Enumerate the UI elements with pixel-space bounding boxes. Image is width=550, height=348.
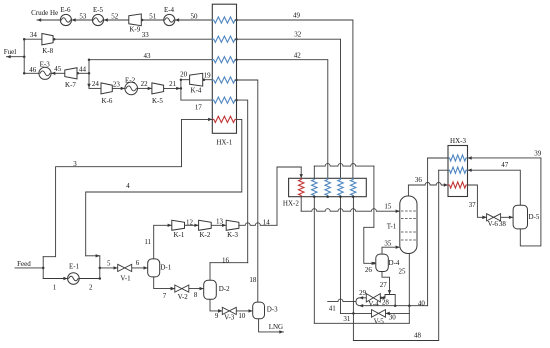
wire stream 32 [237,39,341,178]
svg-text:6: 6 [136,259,140,267]
wire stream 10 [236,310,252,312]
svg-text:K-4: K-4 [191,87,202,95]
wire stream 18 [237,80,258,302]
valve V-4 [366,294,373,302]
valve V-3 [222,307,229,314]
drum D-5 [513,205,527,229]
junction K-9 inlet [141,19,144,22]
svg-text:27: 27 [380,281,388,289]
wire 14 riser [277,167,301,225]
valve V-6 [487,214,494,221]
HX-3 cold pass 39 [448,155,468,161]
wire stream Crude He outlet [37,19,60,21]
svg-text:42: 42 [294,52,302,60]
cooler E-5 [92,14,103,25]
HX-1 feed pass (red) [212,116,236,122]
junction at 34 corner [23,38,26,41]
svg-text:V-1: V-1 [120,275,131,283]
junction 40-28 [394,304,397,307]
junction HX-1 r5 [235,99,238,102]
drum D-1 [148,259,160,277]
wire stream 3 [43,119,212,256]
compressor K-6 [101,83,112,94]
svg-text:24: 24 [92,80,100,88]
junction 19 [203,78,206,81]
wire stream 21 [164,87,181,89]
wire stream 48 [353,170,438,340]
wire stream 34 [24,38,42,40]
svg-text:7: 7 [163,292,167,300]
drum D-3 [253,302,265,319]
wire stream 33 [53,38,212,40]
arrow into D-3 [249,309,253,312]
svg-text:21: 21 [169,80,177,88]
wire stream 52 [104,19,129,21]
HX-3 cold pass 47 [448,167,468,173]
wire stream 23 [112,87,125,89]
junction K-7 inlet [77,72,80,75]
compressor K-2 [199,220,212,230]
wire stream 19 [203,79,213,81]
junction fuel tee [23,55,26,58]
wire stream 41 [328,299,356,302]
wire Feed [15,267,43,269]
wire stream 5 [100,267,118,269]
svg-text:29: 29 [359,289,367,297]
wire stream 17 [181,99,212,101]
svg-text:17: 17 [195,104,203,112]
wire stream 26 header [313,166,315,178]
svg-text:Feed: Feed [17,260,31,268]
wire stream 8 [189,288,204,290]
svg-text:51: 51 [149,12,157,20]
cooler E-3 [39,67,51,79]
HX-1 pass 50/49 [212,17,236,23]
svg-text:36: 36 [415,176,423,184]
wire stream 2 [79,278,100,280]
compressor K-5 [152,83,164,94]
wire stream 43 [89,59,212,61]
valve V-2 [175,285,182,292]
wire 36 run [408,183,448,186]
svg-text:D-4: D-4 [389,259,400,267]
svg-text:E-5: E-5 [93,6,104,14]
svg-text:52: 52 [111,12,119,20]
wire stream 38 [501,216,513,218]
wire LNG [259,319,284,332]
svg-text:D-5: D-5 [528,213,539,221]
wire stream 27 [382,272,390,295]
svg-text:K-3: K-3 [227,231,238,239]
svg-text:D-3: D-3 [267,306,278,314]
arrow 27 down [388,290,391,294]
arrow into K-2 [194,224,198,227]
svg-text:53: 53 [79,12,87,20]
svg-text:44: 44 [79,66,87,74]
wire stream 31 [341,312,372,314]
svg-text:E-4: E-4 [164,6,175,14]
wire stream 15 [300,197,302,212]
wire 31 riser [340,197,342,314]
arrow 29 merge [359,296,363,299]
svg-text:K-9: K-9 [129,26,140,34]
compressor K-9 [129,14,142,26]
T-1 tray 4 [401,239,416,241]
arrow Crude He [37,18,41,21]
junction 21 tee [180,87,183,90]
wire D-2 top riser [209,263,211,281]
HX-2 hot pass (red) [299,178,304,196]
arrow 24 down [87,84,90,88]
drum D-2 [204,280,217,299]
wire stream 20 [181,79,190,81]
svg-text:26: 26 [365,266,373,274]
junction 31-48 [352,312,355,315]
HX-1 pass 43/42 [212,57,236,63]
svg-text:13: 13 [216,218,224,226]
svg-text:20: 20 [180,71,188,79]
wire stream 14 [239,223,277,226]
wire stream 25 [408,254,410,324]
arrow into E-2 [121,87,125,90]
svg-text:38: 38 [499,220,507,228]
heat exchanger HX-1 [212,4,236,133]
wire stream 40 drop [427,158,429,306]
arrow into V-2 [171,287,175,290]
junction 44 tee [88,72,91,75]
wire 27 jog [385,295,395,306]
wire stream 49 [237,20,353,178]
wire stream 4 merge [86,255,100,257]
wire stream 1 [43,278,67,280]
cooler E-1 [68,273,80,285]
svg-text:V-3: V-3 [224,314,235,322]
column T-1 [400,196,417,254]
T-1 tray 1 [401,210,416,212]
svg-text:23: 23 [113,80,121,88]
junction 46 corner [23,72,26,75]
junction 43-44 [88,58,91,61]
svg-text:E-3: E-3 [40,60,51,68]
arrow 40 merge [359,304,363,307]
svg-text:9: 9 [215,312,219,320]
junction HX-1 r2 [235,38,238,41]
wire 43 riser [88,60,90,89]
svg-text:39: 39 [534,150,542,158]
arrow into E-3 [51,72,55,75]
svg-text:3: 3 [73,160,77,168]
svg-text:HX-1: HX-1 [216,139,232,147]
arrow 35 into T-1 [396,246,400,249]
wire stream 29 [359,297,366,299]
junction 40-25 [408,304,411,307]
wire stream 53 [72,19,93,21]
svg-text:D-1: D-1 [160,264,171,272]
arrow into E-4 [175,18,179,21]
svg-text:T-1: T-1 [387,222,397,230]
arrow 4 merge [96,254,100,257]
junction HX-2 b2 [326,195,329,198]
svg-text:K-7: K-7 [65,81,76,89]
HX-2 cold pass 49 [351,178,356,196]
arrow 36 into HX-3 [444,183,448,186]
svg-text:Fuel: Fuel [4,48,17,56]
svg-text:34: 34 [30,31,38,39]
drum D-4 [376,254,389,271]
svg-text:35: 35 [384,240,392,248]
wire stream 48 riser [352,197,354,341]
cooler E-4 [164,14,175,25]
svg-text:28: 28 [382,298,390,306]
wire merge bracket [356,298,359,306]
cooler E-6 [60,14,71,25]
svg-text:V-2: V-2 [178,293,189,301]
svg-text:D-2: D-2 [219,285,230,293]
wire stream 7 [154,277,175,289]
arrow into K-1 [168,224,172,227]
svg-text:K-8: K-8 [42,47,53,55]
wire stream 6 [132,267,148,269]
svg-text:40: 40 [418,299,426,307]
arrow 21 into junction [176,87,180,90]
junction Feed split [42,267,45,270]
arrow into K-5 [148,87,152,90]
wire stream 44 [77,72,89,74]
arrow into D-1 [144,266,148,269]
arrow into D-2 [200,287,204,290]
svg-text:E-2: E-2 [125,77,136,85]
junction HX-1 r1 [235,19,238,22]
junction 2-4 merge [99,277,102,280]
wire 26 drop [373,166,375,227]
svg-text:25: 25 [399,268,407,276]
svg-text:43: 43 [144,52,152,60]
svg-text:K-2: K-2 [199,231,210,239]
svg-text:E-6: E-6 [60,6,71,14]
wire stream 39 [468,157,541,159]
valve V-1 [118,264,125,271]
arrow 3 into HX-1 [208,118,212,121]
wire D-5 bottoms [520,158,541,246]
wire stream 24 [89,87,101,89]
wire stream 28 [380,297,385,299]
wire stream 16 [210,262,248,264]
svg-text:HX-2: HX-2 [283,200,299,208]
svg-text:8: 8 [194,291,198,299]
svg-text:V-4: V-4 [368,300,379,308]
svg-text:4: 4 [126,182,130,190]
arrow LNG [279,330,283,333]
junction HX-2 b1 [313,195,316,198]
svg-text:47: 47 [501,161,509,169]
wire 14 drop [300,167,302,178]
T-1 tray 2 [401,218,416,220]
svg-text:15: 15 [384,203,392,211]
svg-text:41: 41 [329,304,337,312]
junction HX-2 b4 [352,195,355,198]
wire 48 header [439,169,448,171]
svg-text:LNG: LNG [269,323,283,331]
wire stream 37 [468,185,487,217]
wire stream 45 [51,72,65,74]
arrow 14 into HX-2 [300,174,303,178]
arrow into K-3 [222,224,226,227]
svg-text:31: 31 [343,315,351,323]
wire riser-liquid run [314,322,409,324]
svg-text:19: 19 [204,72,212,80]
wire HX-1 red to 4 [86,119,242,255]
svg-text:30: 30 [389,314,397,322]
arrow 26 into D-4 [372,262,376,265]
svg-text:5: 5 [107,260,111,268]
wire stream 22 [138,87,152,89]
wire stream 11 [154,225,172,259]
svg-text:Crude He: Crude He [31,9,58,17]
svg-text:50: 50 [191,12,199,20]
wire stream 40 [359,305,428,307]
svg-text:K-5: K-5 [152,97,163,105]
svg-text:48: 48 [414,331,422,339]
cooler E-2 [125,82,138,95]
arrow into E-1 [63,277,67,280]
svg-text:49: 49 [293,12,301,20]
wire stream 30 [386,312,410,314]
arrow into E-5 [104,18,108,21]
junction 5 tee [99,267,102,270]
wire stream 9 [210,299,222,311]
compressor K-4 [190,73,203,86]
wire stream 51 [142,19,163,21]
compressor K-8 [42,34,53,45]
arrow 47 into HX-3 [468,169,472,172]
junction 28 [380,297,383,300]
junction HX-1 r3 [235,58,238,61]
wire 15 run [301,209,400,211]
heat exchanger HX-3 [448,146,468,197]
HX-2 cold pass 42 [325,178,330,196]
heat exchanger HX-2 [289,178,367,196]
junction K-8 inlet [53,38,56,41]
svg-text:46: 46 [29,66,37,74]
wire stream 12 [185,224,199,226]
svg-text:32: 32 [294,31,302,39]
compressor K-7 [65,68,77,79]
svg-text:K-1: K-1 [173,231,184,239]
valve V-5 [372,310,379,318]
arrow Fuel [7,55,11,58]
arrow 38 into D-5 [509,216,513,219]
HX-1 pass 33/32 [212,36,236,42]
wire stream 50 [175,19,212,21]
svg-text:37: 37 [469,201,477,209]
junction HX-2 b3 [339,195,342,198]
wire stream 42 [237,60,328,179]
wire stream 47 [468,170,521,205]
HX-2 cold pass 26 [312,178,317,196]
svg-text:45: 45 [54,65,62,73]
wire Fuel outlet [7,56,25,58]
svg-text:E-1: E-1 [69,263,80,271]
svg-text:18: 18 [249,276,257,284]
svg-text:HX-3: HX-3 [450,137,466,145]
HX-1 pass 16/17 [212,97,236,103]
wire stream 36 [407,185,409,196]
arrow into V-3 [218,309,222,312]
svg-text:14: 14 [263,218,271,226]
arrow 15 into T-1 [396,210,400,213]
junction 26 [373,262,376,265]
wire blue1 bottom riser [313,197,315,324]
svg-text:10: 10 [238,312,246,320]
junction HX-1 r4 [235,79,238,82]
svg-text:12: 12 [186,218,194,226]
arrow into V-5 [386,312,390,315]
svg-text:2: 2 [89,284,93,292]
svg-text:1: 1 [53,284,57,292]
wire E-1 bypass riser [99,256,101,279]
arrow 39 into HX-3 [468,156,472,159]
HX-2 cold pass 32 [338,178,343,196]
svg-text:16: 16 [222,257,230,265]
junction 20 corner [180,78,183,81]
arrow into E-6 [72,18,76,21]
HX-3 hot pass (red) [448,182,468,188]
wire stream 46 [24,72,39,74]
svg-text:V-5: V-5 [374,317,385,325]
wire stream 16 riser [237,100,248,263]
compressor K-3 [226,220,239,230]
T-1 tray 3 [401,231,416,233]
HX-1 pass 19/18 [212,77,236,83]
svg-text:22: 22 [141,80,149,88]
wire 40 header [428,157,448,159]
wire fuel header vertical [23,39,25,73]
compressor K-1 [172,220,185,230]
arrow into V-6 [482,216,486,219]
svg-text:K-6: K-6 [102,97,113,105]
svg-text:V-6: V-6 [488,220,499,228]
wire stream 13 [211,224,226,226]
wire stream 35 [382,247,400,254]
svg-text:33: 33 [142,31,150,39]
wire 26 jog [364,227,376,263]
wire 17-20 riser [180,80,182,100]
wire feed split vertical [42,257,44,279]
wire 26 top run [314,164,374,167]
svg-text:11: 11 [144,238,151,246]
